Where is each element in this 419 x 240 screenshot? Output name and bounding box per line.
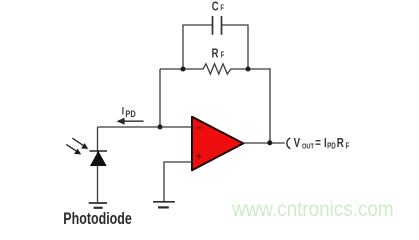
op-amp minus sign (196, 127, 201, 129)
label IPD (122, 105, 136, 119)
wire: output horizontal (242, 142, 285, 144)
node: output junction dot (267, 140, 272, 145)
svg-text:=: = (315, 137, 321, 150)
current arrow IPD (pointing left) (117, 118, 144, 125)
svg-text:V: V (294, 137, 301, 150)
wire: feedback row left horizontal (160, 68, 204, 70)
wire: capacitor branch top-left horizontal (182, 24, 212, 26)
wire: output right vertical (feedback to output node) (269, 68, 271, 143)
svg-text:OUT: OUT (302, 143, 314, 151)
wire: non-inverting input vertical to ground (163, 162, 165, 202)
svg-text:Photodiode: Photodiode (63, 211, 132, 227)
photodiode D1: triangle (anode, pointing up) (91, 152, 106, 166)
label Photodiode (63, 211, 132, 229)
ground at op-amp non-inverting input (153, 202, 175, 208)
wire: capacitor branch top-right horizontal (222, 24, 249, 26)
svg-text:I: I (324, 137, 327, 150)
label CF (212, 0, 224, 14)
label RF (212, 48, 225, 62)
svg-text:F: F (221, 52, 225, 60)
wire: capacitor branch left vertical (182, 25, 184, 69)
wire: vertical from feedback row down to inverting input node (159, 69, 161, 128)
resistor RF zigzag (203, 64, 231, 74)
wire: non-inverting input horizontal (163, 161, 192, 163)
capacitor CF plates (212, 16, 214, 35)
wire: feedback row right horizontal (231, 68, 271, 70)
svg-text:F: F (220, 5, 224, 13)
light arrow 1 (72, 138, 88, 149)
wire: photodiode vertical (97, 127, 99, 203)
svg-text:R: R (212, 48, 220, 62)
output terminal open-circle (287, 138, 290, 149)
node: junction dot right of resistor (246, 67, 251, 72)
svg-text:R: R (337, 137, 344, 150)
svg-text:I: I (122, 105, 124, 117)
svg-text:PD: PD (125, 108, 135, 119)
op-amp plus sign (196, 154, 201, 159)
svg-text:C: C (212, 0, 219, 14)
node: junction dot left of resistor (181, 67, 186, 72)
svg-text:F: F (345, 142, 349, 151)
light arrow 2 (66, 144, 81, 154)
svg-text:www.cntronics.com: www.cntronics.com (231, 198, 394, 221)
wire: capacitor branch right vertical (247, 25, 249, 69)
photodiode D1: cathode bar (90, 150, 108, 152)
op-amp U1 (192, 117, 243, 170)
wire: inverting input horizontal (98, 126, 193, 128)
label VOUT = IPD RF (294, 137, 350, 151)
svg-text:PD: PD (327, 142, 336, 151)
ground under photodiode (89, 203, 107, 208)
watermark www.cntronics.com (231, 198, 394, 221)
node: inverting input junction dot (158, 125, 163, 130)
